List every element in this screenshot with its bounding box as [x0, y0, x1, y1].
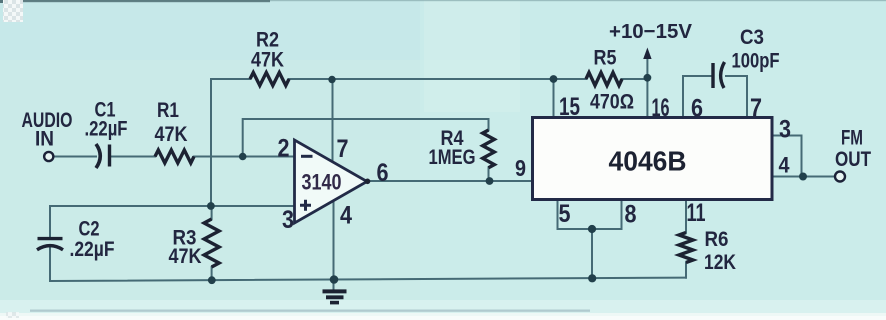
svg-text:1MEG: 1MEG: [429, 146, 476, 169]
svg-text:R6: R6: [705, 228, 729, 251]
svg-text:12K: 12K: [704, 251, 736, 274]
svg-text:7: 7: [750, 94, 762, 122]
svg-text:47K: 47K: [169, 245, 202, 268]
svg-text:2: 2: [278, 135, 290, 163]
svg-text:4046B: 4046B: [609, 145, 687, 176]
svg-text:470Ω: 470Ω: [590, 90, 634, 113]
svg-text:R1: R1: [157, 99, 179, 122]
svg-text:15: 15: [559, 93, 580, 121]
svg-text:16: 16: [652, 94, 670, 122]
svg-text:6: 6: [691, 95, 703, 123]
svg-text:3: 3: [282, 206, 294, 234]
svg-text:R5: R5: [594, 47, 617, 70]
svg-text:11: 11: [687, 199, 706, 227]
svg-text:3140: 3140: [302, 169, 342, 194]
svg-text:4: 4: [779, 153, 791, 178]
svg-text:+10−15V: +10−15V: [609, 20, 692, 43]
svg-text:5: 5: [559, 200, 571, 228]
svg-text:.22µF: .22µF: [85, 118, 128, 141]
svg-text:3: 3: [779, 116, 791, 144]
svg-text:47K: 47K: [155, 123, 188, 146]
svg-text:47K: 47K: [251, 49, 284, 72]
svg-text:9: 9: [515, 155, 526, 181]
svg-text:100pF: 100pF: [732, 50, 780, 73]
svg-text:4: 4: [340, 202, 352, 230]
svg-text:OUT: OUT: [835, 148, 871, 171]
svg-text:8: 8: [625, 201, 637, 229]
svg-text:7: 7: [337, 135, 349, 163]
svg-text:C3: C3: [740, 26, 764, 49]
svg-text:IN: IN: [35, 128, 54, 151]
svg-text:6: 6: [377, 159, 389, 187]
svg-text:.22µF: .22µF: [70, 238, 115, 261]
svg-text:FM: FM: [841, 127, 863, 150]
